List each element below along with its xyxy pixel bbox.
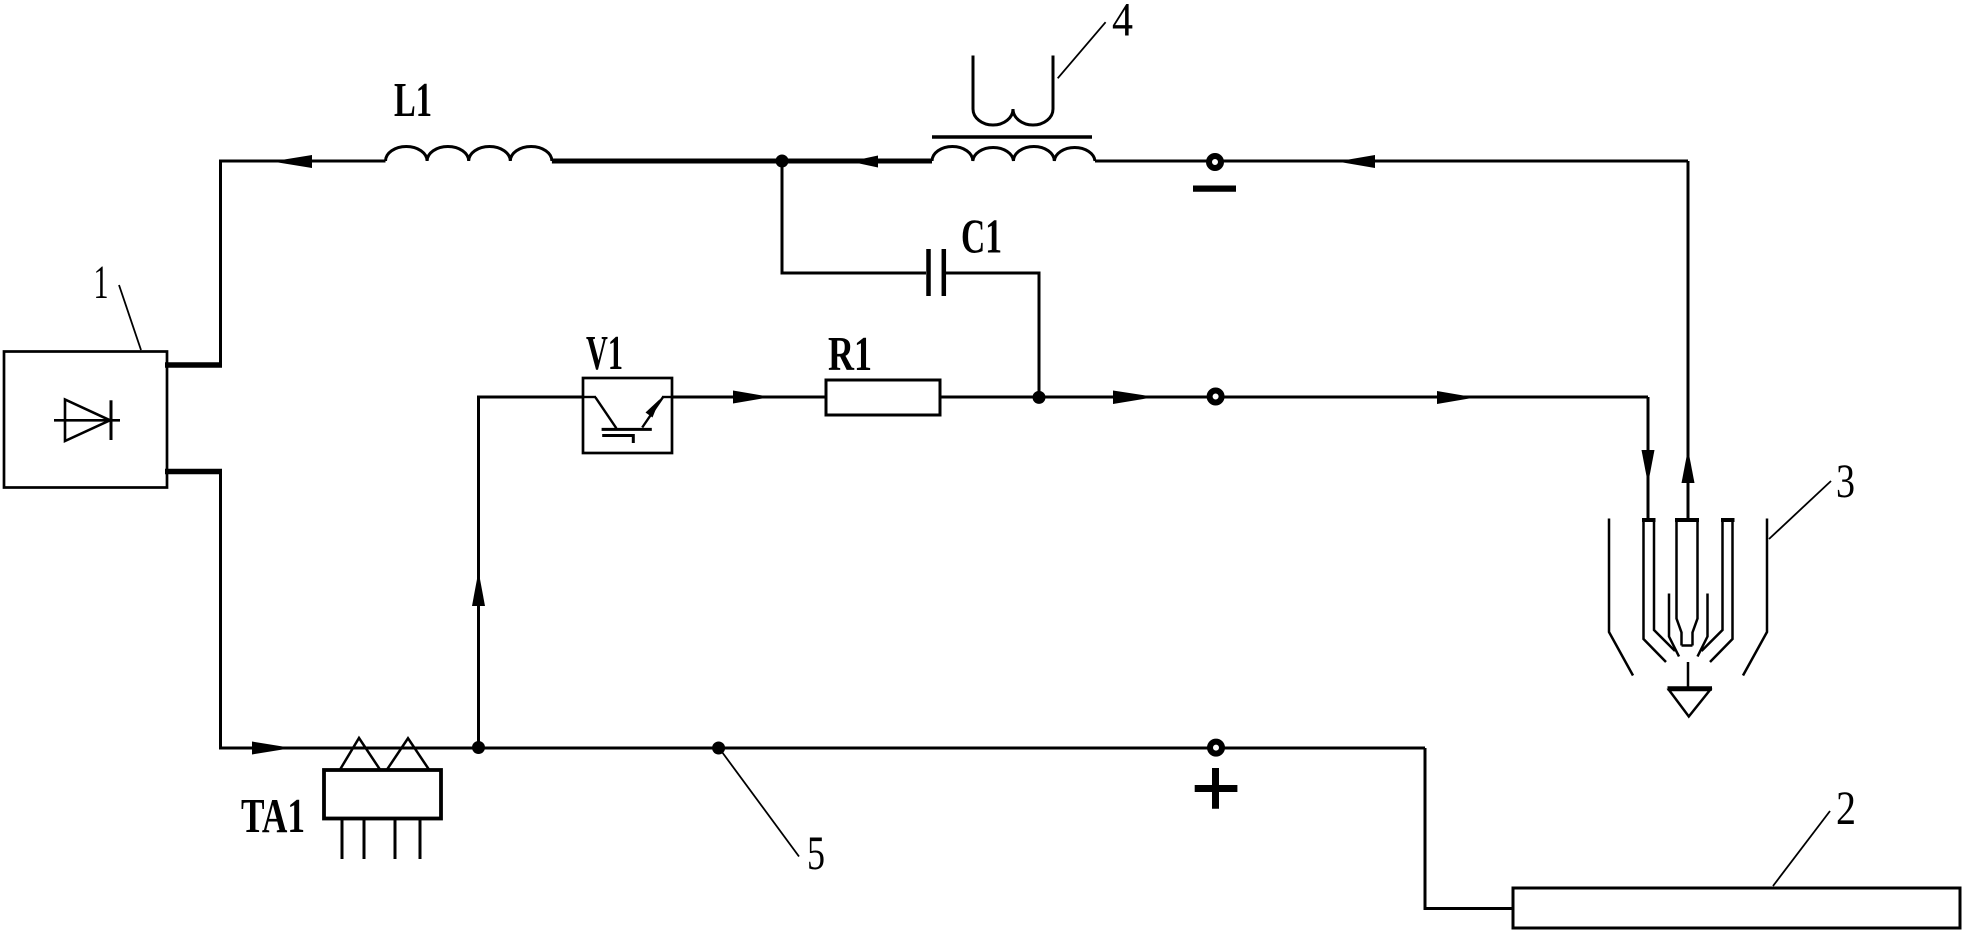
plasma torch 3: right nozzle tube	[1702, 521, 1733, 662]
node 5 junction dot	[712, 742, 725, 755]
plasma torch 3: outer left wall	[1609, 519, 1633, 676]
terminal circle (positive output)	[1210, 742, 1222, 754]
plasma torch 3: right tube top cap	[1721, 518, 1735, 522]
leader line to torch 3	[1769, 481, 1831, 539]
leader line to transformer 4	[1058, 22, 1106, 78]
HF transformer 4: primary winding	[973, 56, 1053, 126]
plasma torch 3: left nozzle tube	[1644, 521, 1676, 662]
svg-text:4: 4	[1112, 0, 1133, 47]
current arrow (left) on top bus near L1	[272, 155, 312, 168]
HF transformer 4: core bar	[932, 135, 1092, 139]
rectifier bottom terminal	[165, 469, 222, 475]
svg-text:V1: V1	[586, 325, 623, 380]
svg-text:1: 1	[94, 256, 109, 309]
svg-text:2: 2	[1836, 782, 1856, 835]
svg-text:R1: R1	[828, 326, 872, 381]
minus sign	[1193, 185, 1236, 191]
wire (bold): L1 to transformer secondary	[552, 159, 932, 164]
junction node (feedback tap)	[472, 741, 485, 754]
arc column line	[1687, 662, 1690, 688]
plasma torch 3: inner right converging line	[1698, 594, 1708, 657]
arc flame triangle	[1668, 686, 1713, 691]
leader line to node 5	[722, 752, 799, 857]
rectifier top terminal	[165, 362, 222, 368]
resistor R1	[826, 380, 940, 415]
svg-text:L1: L1	[394, 72, 432, 127]
wire: C1 branch left (junction down and right to plate)	[782, 161, 926, 273]
wire: rectifier bottom to bottom bus and across	[221, 472, 1426, 749]
plus sign	[1195, 768, 1238, 809]
HF transformer 4: secondary winding	[932, 146, 1095, 161]
leader line to rectifier 1	[119, 285, 141, 350]
current transformer TA1 legs	[342, 819, 420, 860]
transistor V1 box	[583, 378, 672, 453]
svg-text:C1: C1	[961, 209, 1002, 264]
current arrow (right) on bottom bus	[252, 742, 292, 755]
plasma torch 3: center electrode	[1677, 521, 1698, 646]
workpiece 2	[1513, 888, 1960, 928]
diode inside rectifier	[54, 400, 120, 442]
current arrow (left) after negative terminal	[1337, 155, 1375, 168]
wire: C1 branch right (plate to R1 row junction)	[944, 273, 1039, 397]
junction node (C1 tap on top bus)	[776, 155, 789, 168]
current arrow (up) on feedback wire	[472, 571, 485, 606]
svg-text:3: 3	[1836, 455, 1855, 508]
capacitor C1 left plate	[926, 249, 931, 296]
wire: down to torch nozzle	[1647, 397, 1650, 519]
wire: transformer secondary to top-right corner	[1095, 160, 1688, 163]
svg-text:5: 5	[807, 827, 825, 880]
current arrow (left) on bold segment	[850, 156, 878, 168]
rectifier 1 box	[4, 352, 167, 488]
plasma torch 3: electrode top cap	[1675, 518, 1699, 522]
current arrow (right) between V1 and R1	[733, 391, 771, 404]
junction node (C1 to R1 wire)	[1033, 391, 1046, 404]
svg-text:TA1: TA1	[241, 788, 305, 843]
wire: down to torch center electrode	[1687, 161, 1690, 519]
current arrow (right) before torch corner	[1437, 391, 1475, 404]
current arrow (right) after junction	[1113, 391, 1155, 405]
plasma torch 3: outer right wall	[1743, 519, 1767, 676]
wire: top bus from left corner to L1	[221, 161, 386, 365]
inductor L1	[386, 146, 552, 161]
wire: feedback vertical from bottom bus up to V1	[479, 397, 584, 748]
plasma torch 3: inner left converging line	[1669, 594, 1679, 657]
terminal circle (negative output)	[1209, 156, 1221, 168]
capacitor C1 right plate	[942, 249, 947, 296]
current arrow (up) on electrode lead	[1682, 449, 1695, 483]
current transformer TA1 body	[324, 770, 441, 819]
terminal circle on R1 row	[1210, 391, 1222, 403]
current arrow (down) on nozzle lead	[1642, 450, 1655, 484]
leader line to workpiece 2	[1773, 811, 1830, 886]
wire: bus down to workpiece	[1425, 748, 1513, 909]
transistor V1 internals	[583, 397, 672, 443]
current transformer TA1 triangles	[340, 738, 429, 770]
wire: V1 to R1 row through to torch corner	[583, 396, 1648, 399]
plasma torch 3: left tube top cap	[1642, 518, 1656, 522]
